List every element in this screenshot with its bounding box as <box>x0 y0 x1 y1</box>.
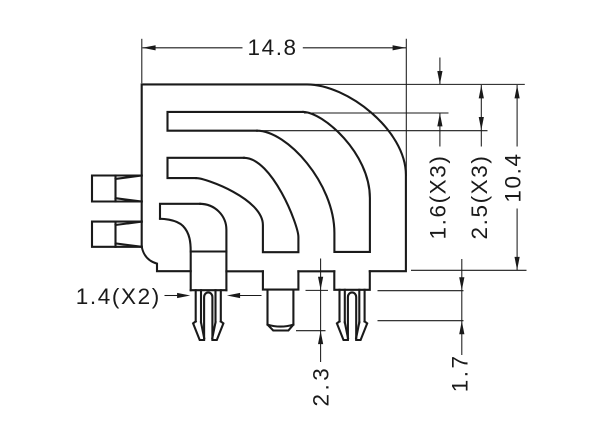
pin 1 shoulder line <box>191 250 227 252</box>
extension line at body top level <box>308 83 525 85</box>
arrowhead 14.8 right <box>393 45 406 50</box>
pin 1 left prong outer edge <box>195 290 197 321</box>
pin 1 block bottom <box>191 289 227 291</box>
arrowhead 2.3 down <box>318 277 323 290</box>
bottom edge segment between pin1 and pin2 <box>226 270 263 272</box>
dim 2.3 lower reference line (peg tip) <box>296 330 326 332</box>
pin 3 block (right boss) <box>334 271 370 290</box>
dim 1.4(X2) right leader <box>239 295 261 297</box>
arrowhead 10.4 up <box>515 85 520 98</box>
dim 1.7 lower reference line <box>378 320 464 322</box>
dim 2.3 upper reference line <box>306 289 329 291</box>
arrowhead 14.8 left <box>142 45 155 50</box>
dim 1.6(X3) upper line <box>439 58 441 85</box>
slot 3 outer bend into pin 1 right side <box>200 204 226 290</box>
svg-text:1.4(X2): 1.4(X2) <box>76 284 161 309</box>
svg-text:2.3: 2.3 <box>309 365 334 407</box>
dim 1.4(X2) left leader <box>165 295 179 297</box>
pin 1 right prong inner edge <box>214 290 216 322</box>
pin 2 peg outline with chamfered tip <box>268 290 294 331</box>
pin 3 right prong inner edge <box>358 290 360 323</box>
arrowhead 1.6(X3) down <box>437 71 442 84</box>
bottom edge segment between pin2 and pin3 <box>298 270 334 272</box>
body bottom-left chamfer fillet <box>142 247 191 272</box>
pin 1 right prong outer edge <box>220 290 222 321</box>
dim 14.8 right extension line <box>405 39 407 176</box>
dim 2.5(X3) line <box>480 85 482 147</box>
dim 10.4 lower line <box>516 209 518 271</box>
upper left tab face line <box>114 176 116 202</box>
lower left tab top chamfer <box>116 222 142 225</box>
pin 3 right prong outer edge <box>364 290 366 322</box>
slot 2 bend (outer and inner curves, bottom closed end) <box>196 158 298 252</box>
pin 1 left prong inner edge <box>200 290 202 322</box>
pin 3 center slit with round top <box>348 292 356 338</box>
dim 1.7 upper reference line <box>378 290 464 292</box>
slot 2 (middle slot) left closed end and upper/lower edges <box>168 158 245 178</box>
arrowhead 1.6(X3) up <box>437 113 442 126</box>
arrowhead 1.4(X2) right <box>177 293 190 298</box>
arrowhead 2.5(X3) down <box>479 117 484 130</box>
lower left tab face line <box>114 222 116 247</box>
extension line at body bottom level <box>411 269 527 271</box>
arrowhead 10.4 down <box>515 257 520 270</box>
dim 1.6(X3) lower line <box>439 113 441 146</box>
upper left tab top chamfer <box>116 176 142 179</box>
dim 2.3 line <box>320 259 322 363</box>
pin 1 left foot chamfer line <box>201 322 204 338</box>
pin 3 right foot chamfer line <box>356 322 359 338</box>
svg-text:1.6(X3): 1.6(X3) <box>425 155 450 240</box>
lower left tab bottom chamfer <box>116 243 142 246</box>
dim 14.8 left extension line <box>141 39 143 83</box>
svg-text:2.5(X3): 2.5(X3) <box>467 155 492 240</box>
pin 3 right foot barb outline <box>356 321 367 340</box>
pin 2 peg chamfer edge curve <box>268 325 294 327</box>
dim 14.8 line right segment <box>303 47 407 49</box>
extension line at slot1 bottom level <box>258 130 488 132</box>
pin 1 right foot barb outline <box>212 321 223 340</box>
pin 1 left foot barb outline <box>193 321 204 340</box>
upper left tab rectangle <box>92 176 142 202</box>
slot 3 (innermost slot) left closed end <box>160 204 200 219</box>
svg-text:14.8: 14.8 <box>247 35 297 60</box>
upper left tab bottom chamfer <box>116 198 142 201</box>
pin 3 left prong inner edge <box>344 290 346 323</box>
extension line at slot1 top level <box>304 112 449 114</box>
lower left tab rectangle <box>92 222 142 247</box>
pin 3 left prong outer edge <box>338 290 340 322</box>
arrowhead 2.3 up <box>318 331 323 344</box>
pin 1 center slit with round top <box>204 292 212 338</box>
pin 2 block (middle boss) <box>263 271 299 289</box>
dim 1.7 line <box>461 259 463 355</box>
dim 10.4 upper line <box>516 85 518 147</box>
svg-text:10.4: 10.4 <box>501 152 526 202</box>
arrowhead 2.5(X3) up <box>479 85 484 98</box>
pin 1 right foot chamfer line <box>212 322 215 338</box>
body outer outline (top edge, corner bend, right edge) <box>142 84 406 271</box>
dim 14.8 line left segment <box>142 47 242 49</box>
slot 1 (outermost slot) left closed end and upper/lower edges <box>168 112 304 131</box>
pin 3 left foot chamfer line <box>345 322 348 338</box>
arrowhead 1.7 up <box>459 321 464 334</box>
svg-text:1.7: 1.7 <box>447 353 472 392</box>
slot 3 inner bend into pin 1 left side <box>160 219 191 290</box>
pin 3 left foot barb outline <box>337 321 348 340</box>
slot 1 bend (outer and inner curves, bottom closed end) <box>257 112 370 252</box>
arrowhead 1.7 down <box>459 277 464 290</box>
arrowhead 1.4(X2) left <box>227 293 240 298</box>
